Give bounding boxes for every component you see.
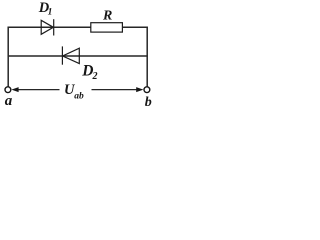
wire right vertical [146, 27, 148, 87]
svg-text:b: b [145, 95, 152, 110]
svg-text:ab: ab [74, 91, 84, 101]
terminal b [144, 87, 150, 93]
wire top rail [8, 26, 148, 28]
wire middle (D2 branch) [8, 55, 148, 57]
wire left vertical [7, 27, 9, 87]
Uab arrow right segment [92, 89, 141, 91]
resistor R [91, 23, 123, 32]
diode D1 [41, 19, 54, 35]
Uab arrow left segment [14, 89, 60, 91]
svg-text:2: 2 [92, 71, 98, 82]
terminal a [5, 87, 11, 93]
svg-text:1: 1 [48, 8, 53, 18]
svg-text:R: R [102, 8, 112, 23]
Uab arrowhead at a [11, 87, 18, 92]
svg-text:a: a [5, 93, 13, 109]
diode D2 [62, 46, 79, 64]
Uab arrowhead at b [136, 87, 143, 92]
